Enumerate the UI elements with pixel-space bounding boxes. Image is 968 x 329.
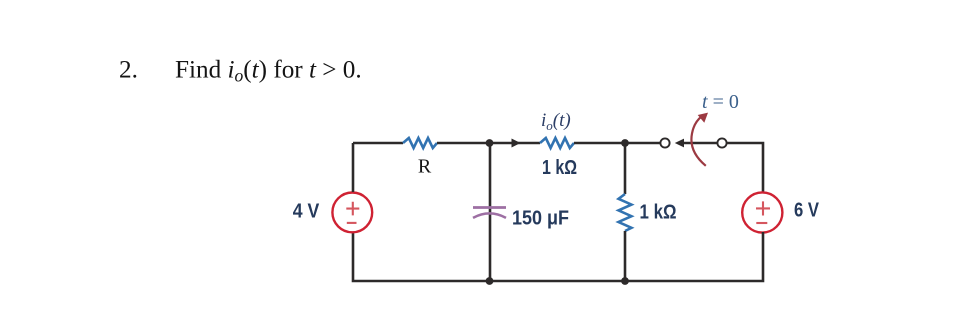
wire top-left segment	[353, 142, 403, 145]
svg-text:1 kΩ: 1 kΩ	[640, 202, 677, 224]
current direction arrowhead	[512, 139, 521, 148]
svg-text:io(t): io(t)	[541, 110, 571, 133]
bottom wire segment node C to bottom-left corner	[353, 232, 489, 281]
wire 1k resistor to node B	[574, 142, 625, 145]
node C junction dot bottom of capacitor branch	[486, 277, 494, 285]
wire switch to top-right corner and down	[727, 143, 764, 192]
switch motion arrowhead	[698, 113, 708, 123]
resistor R	[403, 138, 437, 148]
capacitor C top plate	[473, 206, 506, 209]
svg-text:t = 0: t = 0	[702, 91, 739, 113]
switch motion arc	[691, 117, 705, 166]
wire 4V source up to top-left corner	[352, 143, 355, 192]
wire node A to 1k resistor with current arrow	[490, 142, 540, 145]
resistor 1kOhm vertical	[619, 194, 632, 231]
switch terminal left	[660, 138, 669, 147]
capacitor branch wire	[489, 143, 492, 281]
title problem text	[119, 57, 362, 86]
4V minus sign	[347, 222, 357, 224]
svg-text:R: R	[418, 156, 432, 178]
voltage source 6V circle	[742, 192, 782, 232]
wire between R and node A	[437, 142, 490, 145]
capacitor C bottom curved plate	[473, 213, 506, 218]
4V plus sign	[346, 202, 359, 216]
svg-text:150 μF: 150 μF	[512, 208, 569, 230]
6V minus sign	[756, 222, 767, 224]
wire vertical resistor down to node D	[624, 231, 627, 281]
svg-text:4 V: 4 V	[293, 200, 320, 222]
bottom wire segment node D to node C	[489, 280, 625, 283]
wire 6V source to bottom-right corner	[625, 232, 763, 281]
wire node B down to vertical resistor	[624, 143, 627, 194]
node D junction dot bottom of 1k branch	[621, 277, 629, 285]
svg-text:Find io(t) for t > 0.: Find io(t) for t > 0.	[175, 57, 362, 86]
switch blade arrowhead	[675, 139, 684, 148]
switch blade	[683, 142, 717, 145]
resistor 1kOhm horizontal	[540, 138, 574, 148]
svg-text:1 kΩ: 1 kΩ	[542, 157, 577, 179]
node A junction dot top of capacitor branch	[486, 139, 494, 147]
node B junction dot top of 1k branch	[621, 139, 629, 147]
svg-text:2.: 2.	[119, 57, 138, 84]
switch terminal right	[717, 138, 726, 147]
voltage source 4V circle	[332, 193, 372, 233]
6V plus sign	[756, 201, 770, 215]
svg-text:6 V: 6 V	[794, 200, 820, 222]
wire node B to switch	[625, 142, 660, 145]
